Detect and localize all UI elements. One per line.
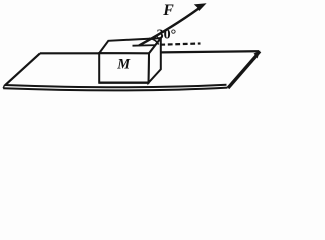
svg-text:30°: 30°: [157, 28, 177, 43]
svg-text:F: F: [162, 2, 174, 19]
svg-text:M: M: [116, 57, 131, 73]
